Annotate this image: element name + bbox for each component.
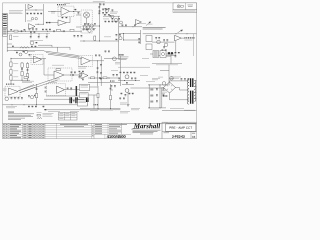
- capacitor C19: [158, 37, 160, 38]
- wire effects left vertical: [140, 30, 142, 44]
- wire secondary stub 2: [194, 85, 196, 87]
- wire junction: [159, 83, 162, 86]
- spare gates cell b: [65, 112, 69, 115]
- capacitor C6: [27, 68, 29, 71]
- wire junction: [108, 77, 111, 80]
- resistor R16: [103, 77, 107, 79]
- N.B. heading: [119, 54, 124, 55]
- resistor R16: [98, 6, 100, 7]
- wire lower switch row: [82, 25, 100, 27]
- capacitor C12a: [108, 8, 110, 9]
- resistor R66: [127, 72, 129, 73]
- potentiometer VR2c: [120, 21, 123, 24]
- electrolytic capacitor CE3: [87, 98, 89, 103]
- resistor R55: [95, 55, 97, 56]
- resistor R28: [34, 32, 36, 33]
- jack J6 text: [80, 93, 87, 96]
- resistor R20: [37, 114, 40, 116]
- wire lower input stage: [35, 23, 43, 25]
- resistor R63: [71, 72, 73, 73]
- resistor R49: [104, 14, 106, 15]
- labels x112: [111, 69, 118, 72]
- capacitor C15: [46, 29, 48, 30]
- resistor R4: [10, 35, 12, 40]
- labels under bus mid: [100, 109, 113, 112]
- resistor R10 feedback: [62, 17, 64, 18]
- value label stack R3: [13, 76, 18, 79]
- wire junction: [186, 32, 189, 35]
- capacitor C32: [135, 78, 137, 79]
- resistor R79: [28, 106, 30, 107]
- wire junction: [61, 30, 64, 33]
- resistor R8: [10, 76, 12, 81]
- resistor R6: [46, 22, 48, 23]
- capacitor C37: [34, 95, 36, 96]
- text under IC2b: [78, 66, 87, 68]
- potentiometer VR9: [162, 82, 166, 86]
- wire down right: [118, 16, 120, 41]
- title block grid: [94, 125, 122, 127]
- resistor R90: [156, 88, 158, 89]
- wire junction: [35, 103, 38, 106]
- capacitor C48: [163, 94, 165, 95]
- resistor R55b: [105, 51, 107, 52]
- resistor R45: [164, 53, 166, 54]
- footswitch jack J7: [78, 100, 88, 106]
- wire from bus to driver: [43, 58, 45, 75]
- capacitor C26b: [108, 51, 110, 52]
- resistor R13: [24, 77, 28, 79]
- capacitor C10: [36, 89, 38, 90]
- dashed enclosure IC2b: [79, 55, 93, 66]
- wire into opto 1: [76, 14, 81, 16]
- reverb driver values: [54, 78, 60, 81]
- do-not-scale strip: [173, 10, 197, 13]
- resistor R83: [67, 88, 69, 89]
- wire chain y78: [88, 77, 119, 79]
- PSU text below: [150, 108, 159, 111]
- wire to effects row: [119, 26, 142, 28]
- capacitor C29: [113, 74, 115, 75]
- resistor R68: [118, 78, 120, 79]
- wire junction: [97, 107, 100, 110]
- wire into effects: [119, 32, 141, 34]
- spare gates cell g: [59, 117, 63, 120]
- wire junction: [11, 103, 14, 106]
- capacitor C7: [73, 74, 74, 76]
- label top of stacks: [28, 50, 35, 53]
- resistor R78: [28, 95, 30, 96]
- op-amp IC3b: [81, 73, 88, 79]
- capacitor C43: [126, 82, 128, 83]
- label under effects cluster: [162, 55, 171, 58]
- resistor R62: [82, 79, 84, 80]
- op-amp IC2b: [81, 57, 90, 65]
- resistor R86: [121, 93, 123, 94]
- resistor R11: [75, 9, 77, 10]
- capacitor C2: [20, 30, 23, 32]
- N.B. note lines: [119, 57, 129, 60]
- resistor R85a: [111, 85, 113, 86]
- wire vertical x110: [110, 84, 112, 109]
- wire right mid horizontal: [160, 69, 169, 71]
- capacitor C27: [100, 78, 102, 79]
- wire bus y58: [11, 57, 46, 59]
- notes text lines: [8, 113, 34, 119]
- wire bottom effects: [155, 54, 176, 56]
- capacitor C14: [30, 32, 32, 33]
- wire tone drop C: [46, 33, 48, 36]
- capacitor C4: [64, 30, 65, 32]
- valve2 labels: [120, 103, 127, 105]
- capacitor C38: [32, 106, 34, 107]
- resistor R5: [37, 13, 39, 14]
- wire IC1a output: [70, 10, 81, 12]
- resistor R18: [97, 93, 99, 97]
- wire junction: [122, 39, 125, 42]
- wire bridge bottom: [170, 93, 189, 100]
- caption under rule: [156, 64, 178, 67]
- resistor R22: [84, 23, 86, 24]
- supply rail labels: [57, 4, 66, 5]
- spare gates table: [59, 112, 78, 120]
- legend intro: [37, 111, 42, 114]
- value label stack R1: [13, 62, 18, 65]
- marshall address lines: [133, 130, 161, 133]
- op-amp IC3a reverb driver: [54, 71, 64, 79]
- wire junction: [10, 57, 13, 60]
- wire from input connectors: [6, 14, 8, 53]
- jack J5 text: [81, 85, 89, 87]
- capacitor C17a: [23, 51, 25, 52]
- resistor R14: [100, 4, 102, 5]
- wire junction: [21, 79, 24, 82]
- marshall address last line: [140, 133, 153, 136]
- wire junction: [46, 30, 49, 33]
- wire vertical x101: [100, 56, 102, 86]
- wire junction: [111, 89, 114, 92]
- switch row labels: [86, 27, 96, 30]
- resistor R25b: [112, 21, 114, 22]
- wire junction: [122, 32, 125, 35]
- revision table grid: [3, 125, 57, 127]
- wire vertical x120: [119, 56, 121, 86]
- projection symbol box: [173, 3, 197, 10]
- title section frame: [162, 121, 197, 123]
- jack socket SK6 return: [146, 44, 152, 50]
- resistor R67: [130, 72, 132, 73]
- resistor R24b: [112, 10, 114, 11]
- wire right mid vertical: [168, 65, 170, 84]
- resistor R92: [156, 100, 158, 101]
- resistor R36: [31, 46, 33, 47]
- wire input to bus: [7, 30, 25, 32]
- wire right vertical: [193, 34, 195, 56]
- wire junction: [83, 40, 86, 43]
- IC1 designator text: [51, 11, 56, 13]
- resistor R29: [42, 29, 44, 30]
- dashed enclosure reverb driver: [48, 68, 72, 81]
- resistor R69: [131, 78, 133, 79]
- capacitor C10: [106, 12, 108, 13]
- net label top: [93, 0, 105, 3]
- opto coupler OC1: [84, 12, 90, 18]
- resistor R50: [122, 25, 124, 26]
- wire bridge top: [170, 81, 178, 82]
- resistor R4: [30, 13, 32, 14]
- capacitor C22b: [77, 35, 79, 36]
- resistor R81: [45, 109, 47, 110]
- bottom band top rule: [3, 122, 197, 124]
- op-amp IC2a lower: [29, 24, 35, 30]
- wire junction: [123, 79, 126, 82]
- resistor R65: [120, 72, 122, 73]
- wire down to caption: [170, 54, 172, 64]
- reverb tank jack J6: [80, 93, 89, 98]
- wire long run B: [46, 53, 80, 57]
- resistor R88: [132, 93, 134, 94]
- wire junction: [35, 9, 38, 12]
- capacitor C26: [99, 55, 101, 56]
- modification record header: [60, 124, 88, 127]
- resistor R60: [79, 71, 81, 72]
- caption rule: [152, 63, 182, 65]
- transistor TR2: [90, 24, 93, 27]
- resistor R24a: [105, 8, 107, 9]
- modification record issue column: [92, 125, 93, 128]
- resistor R7: [10, 70, 12, 75]
- power amp output label: [184, 37, 194, 38]
- wire long run C: [48, 54, 82, 58]
- wire between optos: [86, 18, 88, 24]
- wire vertical x98b: [97, 86, 99, 109]
- wire junction: [132, 25, 135, 28]
- input connector block SK1: [3, 13, 8, 20]
- opto coupler OC1 cross: [84, 13, 88, 17]
- wire PSU mid rail: [159, 85, 161, 108]
- text under rails A: [48, 110, 60, 113]
- legend inductor symbol: [37, 117, 42, 119]
- resistor R25c: [115, 21, 117, 22]
- wire junction: [26, 79, 29, 82]
- wire junction: [70, 88, 73, 91]
- wire IC2b output: [90, 60, 104, 62]
- arrowhead: [180, 30, 183, 32]
- notes heading: [8, 111, 14, 114]
- wire down from J6: [93, 95, 95, 109]
- resistor R23: [94, 23, 96, 24]
- wire NFB long B: [20, 80, 58, 93]
- resistor R51: [134, 25, 136, 26]
- transformer T1 secondary winding: [194, 80, 196, 101]
- capacitor C31: [134, 72, 136, 73]
- capacitor C30: [123, 72, 125, 73]
- resistor R47: [83, 29, 85, 30]
- resistor R10: [21, 72, 23, 76]
- wire top effects rail: [143, 33, 197, 35]
- input connector block SK2: [3, 22, 8, 28]
- faint mid label: [142, 57, 149, 60]
- tone control labels: [30, 39, 43, 42]
- resistor R36b: [29, 54, 31, 55]
- resistor R70: [175, 52, 177, 53]
- capacitor C47: [163, 88, 165, 89]
- value label: [13, 35, 19, 38]
- resistor R42: [163, 39, 165, 40]
- wire valve2 top: [122, 83, 134, 85]
- dashed enclosure switching opto: [81, 10, 92, 33]
- wire IC1b output up: [67, 17, 71, 23]
- value label stack R2: [13, 70, 18, 73]
- marshall logo: [134, 123, 161, 128]
- wire down right lower: [118, 41, 120, 59]
- resistor R17: [35, 93, 37, 97]
- wire junction: [23, 103, 26, 106]
- capacitor C2: [34, 13, 36, 14]
- capacitor C13: [32, 28, 34, 29]
- fuse FS1: [170, 77, 174, 81]
- reference text left of title block: [90, 109, 98, 112]
- capacitor C41: [70, 88, 72, 89]
- wire step B: [52, 47, 70, 50]
- wire vertical x37: [36, 84, 38, 105]
- bridge rectifier BR1: [164, 82, 176, 93]
- spare gates cell f: [71, 115, 75, 118]
- resistor R6: [10, 62, 12, 67]
- wire bus y109: [80, 108, 120, 110]
- resistor R18: [102, 9, 104, 10]
- transistor TR4: [79, 73, 82, 76]
- dashed enclosure IC4b: [31, 54, 43, 64]
- capacitor C33: [178, 52, 180, 53]
- spare gates cell d: [59, 115, 63, 118]
- op-amp IC4b: [34, 56, 42, 63]
- resistor R56: [97, 72, 99, 73]
- resistor R40: [138, 38, 140, 39]
- supply value text: [64, 2, 70, 5]
- sheet size cell: [190, 132, 192, 139]
- model number 4100/4500: [107, 135, 126, 138]
- transistor TR1a: [31, 18, 33, 20]
- reference text above title block: [184, 109, 195, 112]
- transistor TR7: [25, 51, 28, 54]
- mains fuse labels: [161, 90, 167, 93]
- wire secondary stub 4: [194, 97, 196, 99]
- title label: [164, 122, 169, 125]
- left small values: [3, 89, 7, 91]
- resistor R36a: [16, 52, 18, 53]
- resistor R91: [156, 94, 158, 95]
- wire return to mixer: [152, 41, 175, 43]
- wire SW1 right: [166, 53, 175, 55]
- resistor R15: [91, 77, 95, 79]
- input connector block SK3: [3, 29, 8, 37]
- transistor TR3: [88, 29, 91, 32]
- op-amp IC1b: [58, 20, 67, 26]
- input stage value labels: [27, 20, 32, 23]
- capacitor C21: [165, 50, 167, 51]
- resistor R11: [26, 64, 28, 68]
- wire junction: [148, 83, 151, 86]
- dark component pair: [168, 52, 170, 54]
- wire tone drop A: [30, 33, 32, 36]
- opto coupler OC2: [84, 24, 90, 30]
- jack socket SK5 send: [146, 36, 152, 42]
- jack J7 text: [79, 101, 87, 103]
- wire junction: [69, 74, 72, 77]
- wire bus y105: [3, 104, 89, 106]
- wire secondary stub 1: [194, 79, 196, 81]
- potentiometer VR6 level: [157, 40, 161, 44]
- transistor TR6: [19, 53, 22, 56]
- wire junction: [134, 79, 137, 82]
- wire jack J5 out: [90, 86, 99, 88]
- capacitor C22: [86, 29, 88, 30]
- labels below stacks: [22, 81, 34, 83]
- arrowhead up: [149, 22, 151, 24]
- wire left vertical: [10, 58, 12, 84]
- wire under valve: [118, 80, 140, 82]
- resistor R59: [116, 74, 118, 75]
- capacitor C11: [45, 87, 47, 88]
- wire input stage left vertical: [24, 4, 26, 22]
- capacitor C20: [166, 39, 168, 40]
- capacitor C3: [40, 13, 42, 14]
- wire input stage right vertical: [42, 4, 44, 24]
- wire junction: [98, 40, 101, 43]
- capacitor C35: [74, 72, 76, 73]
- wire mid bus right: [103, 15, 120, 17]
- wire junction: [98, 25, 101, 28]
- left small label: [158, 76, 163, 79]
- wire stub: [7, 43, 12, 45]
- resistor R21: [118, 18, 120, 19]
- right mid labels: [171, 77, 181, 79]
- potentiometer VR4 reverb: [113, 57, 117, 61]
- resistor R75: [11, 97, 13, 98]
- wire into IC1a: [48, 10, 61, 12]
- resistor R76: [18, 97, 20, 98]
- transistor TR1b: [35, 18, 37, 20]
- wire junction: [109, 107, 112, 110]
- capacitor C12: [108, 21, 110, 22]
- wire tone drop B: [38, 33, 40, 36]
- wire rail y96: [46, 95, 84, 97]
- op-amp IC5 power stage: [57, 86, 65, 93]
- PSU label: [152, 78, 160, 80]
- wire into PL2: [150, 53, 153, 55]
- resistor R43: [163, 46, 165, 47]
- labels right mid: [115, 62, 121, 64]
- resistor R57: [100, 64, 102, 65]
- wire junction: [148, 106, 151, 109]
- resistor R3: [27, 13, 29, 14]
- capacitor C23: [108, 14, 110, 15]
- wire NFB long A: [18, 78, 56, 91]
- effects loop note text: [143, 27, 166, 29]
- capacitor C18: [138, 42, 140, 43]
- wire bottom rail right: [162, 110, 196, 112]
- legend text: [43, 113, 54, 116]
- resistor R19: [110, 95, 112, 99]
- dashed enclosure presence stage: [5, 86, 20, 97]
- capacitor C11: [88, 23, 90, 24]
- capacitor C15: [150, 95, 153, 96]
- resistor R25: [105, 21, 107, 22]
- capacitor C4: [49, 22, 51, 23]
- wire mixer down: [175, 41, 177, 56]
- wire diagonal NFB A: [18, 85, 34, 92]
